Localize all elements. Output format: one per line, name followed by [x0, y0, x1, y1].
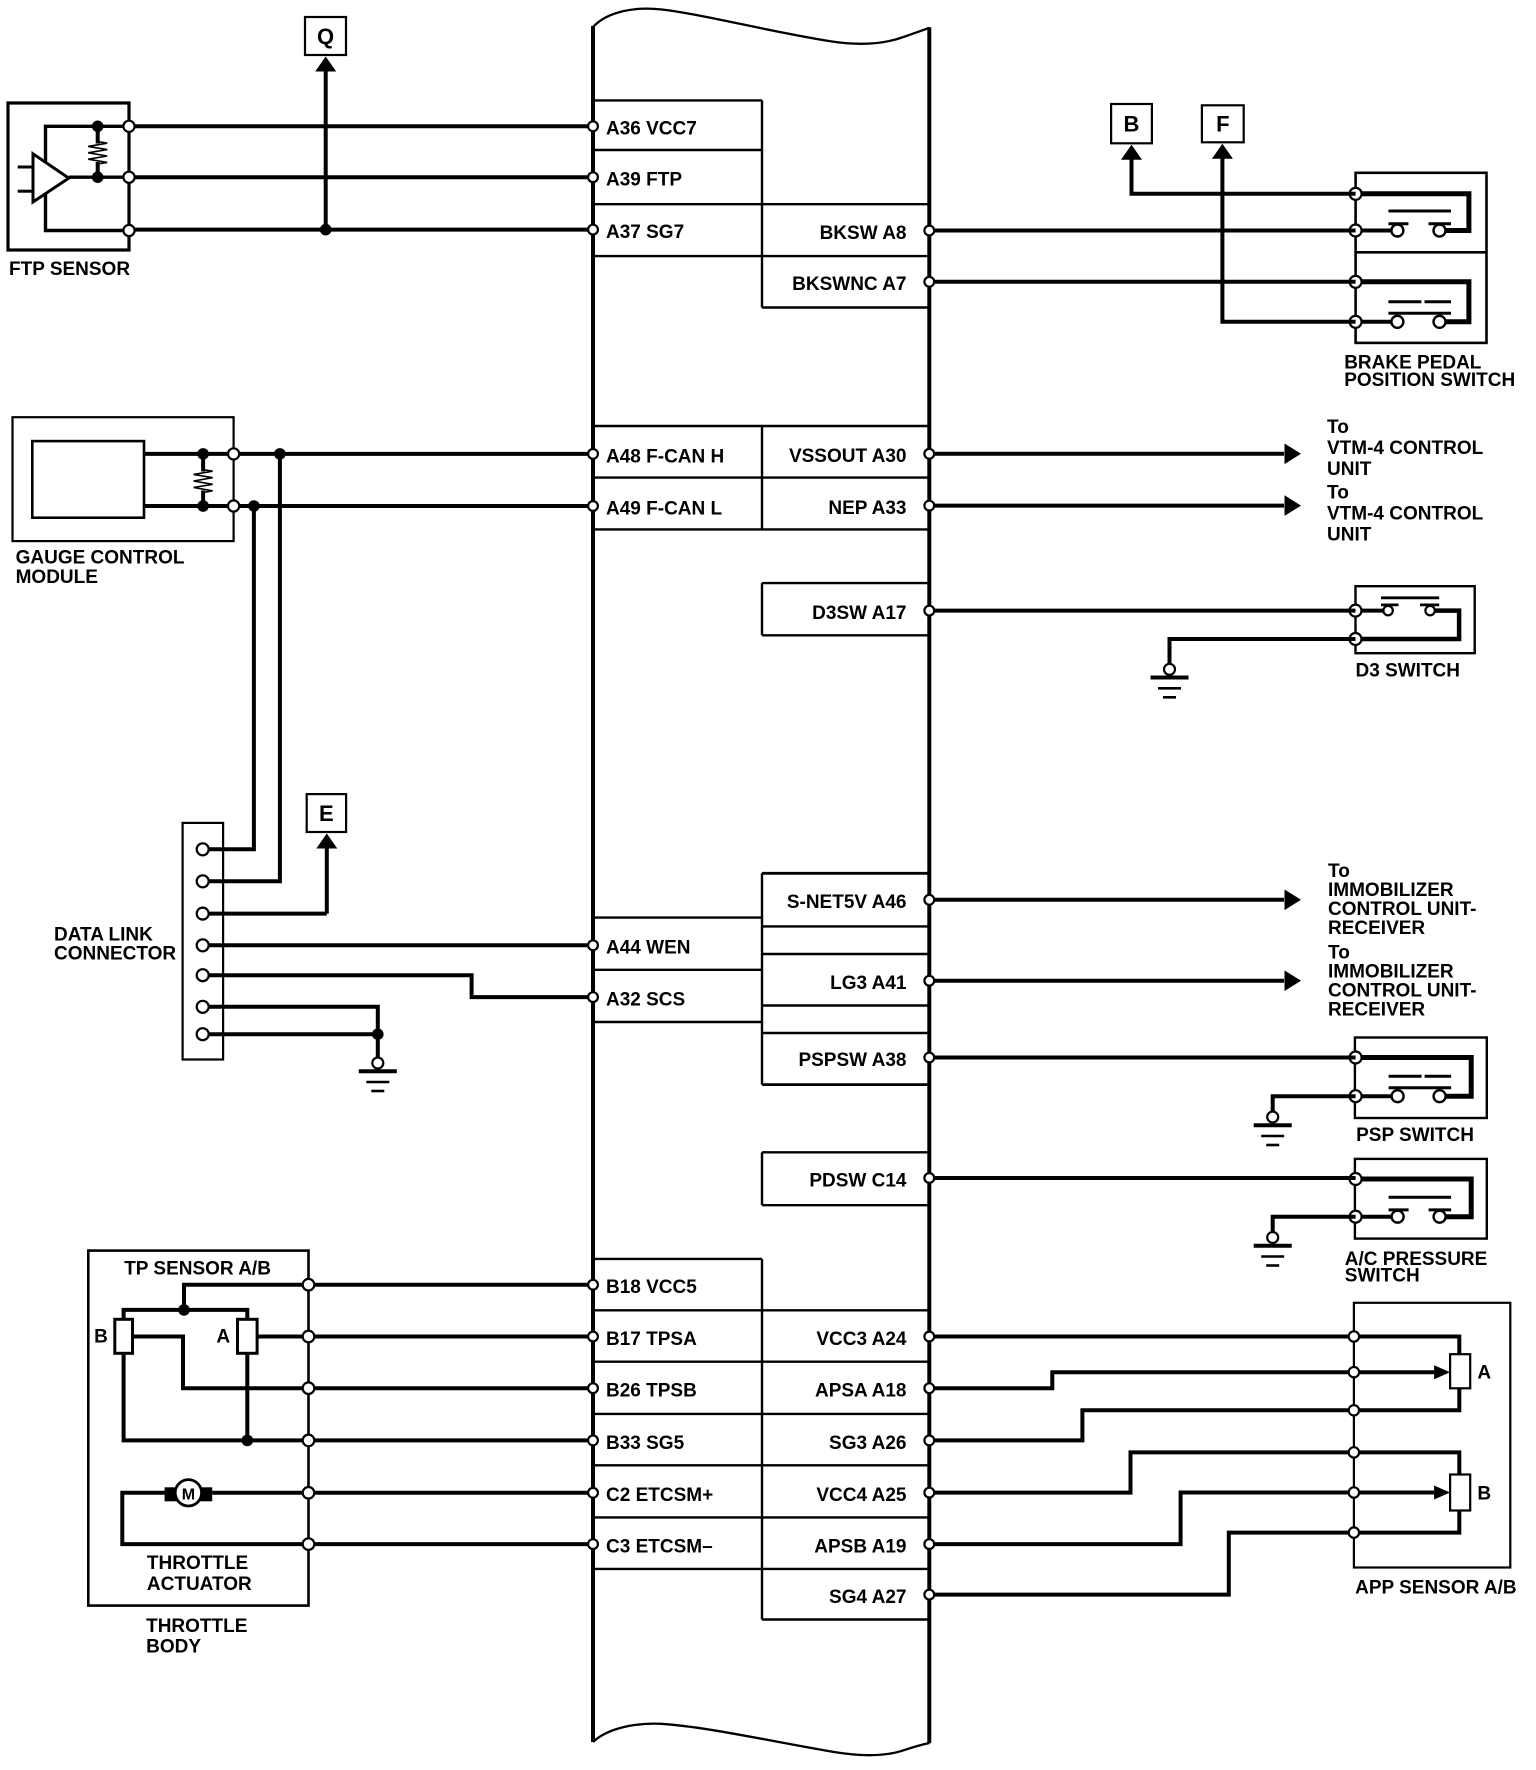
- wire PDSW C14 to A/C pressure switch: [929, 1176, 1355, 1180]
- svg-text:BKSW A8: BKSW A8: [820, 223, 907, 244]
- TP SENSOR A/B label: [124, 1258, 271, 1279]
- junction dot DLC ground wires: [372, 1028, 384, 1040]
- wire DLC pin 7 to ground: [203, 1034, 378, 1057]
- To VTM-4 CONTROL UNIT label (VSSOUT): [1327, 417, 1484, 480]
- wire SG3 A26 to APP sensor: [929, 1410, 1354, 1440]
- svg-text:PDSW C14: PDSW C14: [809, 1170, 907, 1191]
- wire from A37 SG7 up to connector Q with arrowhead: [315, 57, 336, 230]
- data link connector box: [183, 823, 224, 1060]
- ECM pin box D3SW A17: [762, 583, 929, 635]
- wire A/C pressure switch to ground: [1273, 1217, 1356, 1232]
- wire S-NET5V A46 to immobilizer control unit-receiver with arrowhead: [929, 890, 1301, 911]
- svg-text:VTM-4 CONTROL: VTM-4 CONTROL: [1327, 504, 1484, 525]
- connector ref Q box: [305, 17, 346, 55]
- svg-text:A39 FTP: A39 FTP: [606, 170, 682, 191]
- connector ref F box: [1202, 105, 1244, 142]
- wire A37 SG7 to FTP sensor: [129, 228, 593, 232]
- junction dot TP sensor ground rail: [242, 1435, 254, 1447]
- wire LG3 A41 to immobilizer control unit-receiver with arrowhead: [929, 970, 1301, 991]
- svg-text:VCC3 A24: VCC3 A24: [816, 1329, 907, 1350]
- wire DLC pin 5 to A32 SCS: [203, 975, 593, 997]
- GAUGE CONTROL MODULE label: [16, 547, 185, 588]
- APP sensor terminal circles: [1349, 1331, 1359, 1538]
- BRAKE PEDAL POSITION SWITCH label: [1344, 353, 1515, 392]
- ECM connector band right edge: [927, 27, 931, 1743]
- potentiometer TP sensor B: [94, 1319, 132, 1353]
- wire brake switch to connector F with arrowhead: [1212, 144, 1356, 322]
- APP sensor A wiper arrow: [1354, 1365, 1450, 1379]
- svg-text:A44 WEN: A44 WEN: [606, 938, 690, 959]
- APP sensor box: [1354, 1303, 1510, 1568]
- svg-text:IMMOBILIZER: IMMOBILIZER: [1328, 962, 1454, 983]
- svg-text:IMMOBILIZER: IMMOBILIZER: [1328, 880, 1454, 901]
- svg-text:APSB A19: APSB A19: [814, 1537, 906, 1558]
- APP SENSOR A/B label: [1355, 1578, 1517, 1599]
- ECM pin box group: S-NET5V A46 / A44 WEN / LG3 A41 / A32 SCS / PSPSW A38: [593, 873, 929, 1084]
- svg-text:VSSOUT A30: VSSOUT A30: [789, 446, 907, 467]
- svg-text:A36 VCC7: A36 VCC7: [606, 119, 697, 140]
- svg-text:A37 SG7: A37 SG7: [606, 222, 684, 243]
- svg-text:TP SENSOR A/B: TP SENSOR A/B: [124, 1258, 271, 1279]
- svg-text:FTP SENSOR: FTP SENSOR: [9, 259, 130, 280]
- svg-text:B18 VCC5: B18 VCC5: [606, 1277, 697, 1298]
- wire A48 F-CAN H to gauge module: [234, 452, 593, 456]
- svg-text:BKSWNC A7: BKSWNC A7: [792, 274, 906, 295]
- svg-text:GAUGE CONTROL: GAUGE CONTROL: [16, 547, 185, 568]
- To IMMOBILIZER CONTROL UNIT-RECEIVER label (LG3): [1328, 943, 1476, 1021]
- wire D3SW A17 to D3 switch: [929, 609, 1355, 613]
- svg-text:CONTROL UNIT-: CONTROL UNIT-: [1328, 899, 1476, 920]
- svg-text:THROTTLE: THROTTLE: [147, 1553, 248, 1574]
- wire A36 VCC7 to FTP sensor: [129, 124, 593, 128]
- svg-text:RECEIVER: RECEIVER: [1328, 1000, 1425, 1021]
- svg-text:RECEIVER: RECEIVER: [1328, 918, 1425, 939]
- APP sensor B supply/ground wiring: [1354, 1452, 1459, 1532]
- svg-text:POSITION SWITCH: POSITION SWITCH: [1344, 370, 1515, 391]
- wire throttle motor to C3 ETCSM-: [122, 1493, 593, 1544]
- connector ref B box: [1111, 104, 1152, 143]
- riser wire F-CAN H to data link connector pin 2: [203, 454, 280, 881]
- wire APSA A18 to APP sensor: [929, 1372, 1354, 1388]
- wire VCC4 A25 to APP sensor: [929, 1452, 1354, 1492]
- svg-text:CONNECTOR: CONNECTOR: [54, 944, 176, 965]
- svg-text:CONTROL UNIT-: CONTROL UNIT-: [1328, 981, 1476, 1002]
- svg-text:APP SENSOR A/B: APP SENSOR A/B: [1355, 1578, 1517, 1599]
- brake pedal switch upper contact set (BKSW): [1356, 194, 1469, 237]
- svg-text:A49 F-CAN L: A49 F-CAN L: [606, 498, 723, 519]
- PSP SWITCH label: [1356, 1125, 1474, 1146]
- svg-text:SWITCH: SWITCH: [1345, 1265, 1420, 1286]
- svg-text:PSPSW A38: PSPSW A38: [798, 1050, 906, 1071]
- potentiometer TP sensor A: [216, 1319, 257, 1353]
- ground symbol for A/C pressure switch: [1254, 1232, 1292, 1266]
- D3 switch contacts: [1356, 598, 1460, 639]
- svg-text:UNIT: UNIT: [1327, 459, 1372, 480]
- brake pedal switch terminal circles: [1350, 188, 1362, 328]
- DATA LINK CONNECTOR label: [54, 925, 176, 965]
- svg-text:C2 ETCSM+: C2 ETCSM+: [606, 1485, 713, 1506]
- gauge control module box: [13, 417, 234, 541]
- D3 SWITCH label: [1356, 661, 1461, 682]
- D3 switch box: [1356, 586, 1475, 653]
- svg-text:D3 SWITCH: D3 SWITCH: [1356, 661, 1461, 682]
- ECM band torn top edge: [593, 9, 929, 44]
- svg-text:To: To: [1328, 861, 1350, 882]
- ECM pin box group: A36 VCC7 / A39 FTP / A37 SG7 / BKSW A8 / BKSWNC A7: [593, 100, 929, 307]
- svg-text:ACTUATOR: ACTUATOR: [147, 1574, 252, 1595]
- svg-text:B: B: [1477, 1483, 1491, 1504]
- brake pedal position switch box: [1356, 173, 1487, 343]
- wire APSB A19 to APP sensor: [929, 1493, 1354, 1545]
- wire A49 F-CAN L to gauge module: [234, 504, 593, 508]
- svg-text:LG3 A41: LG3 A41: [830, 973, 907, 994]
- svg-text:E: E: [319, 801, 334, 826]
- svg-text:A: A: [1477, 1362, 1491, 1383]
- wire DLC pin 6 to ground junction: [203, 1007, 378, 1034]
- ECM band torn bottom edge: [593, 1724, 929, 1756]
- throttle body box: [88, 1251, 308, 1606]
- ECM pin box group: B18 VCC5 / B17 TPSA / B26 TPSB / B33 SG5 / C2 ETCSM+ / C3 ETCSM- / VCC3 A24 / APSA A18 / SG3 A26 / VCC4 A25 / APSB A19 / SG4 A27: [593, 1259, 929, 1620]
- ECM left edge pin circles: [588, 121, 598, 1549]
- wire brake switch to connector B with arrowhead: [1121, 145, 1356, 194]
- svg-text:UNIT: UNIT: [1327, 525, 1372, 546]
- wire PSP switch to ground: [1273, 1096, 1356, 1111]
- APP sensor B wiper arrow: [1354, 1486, 1450, 1500]
- FTP sensor box: [8, 103, 129, 250]
- svg-text:F: F: [1216, 112, 1229, 137]
- svg-text:VTM-4 CONTROL: VTM-4 CONTROL: [1327, 438, 1484, 459]
- FTP sensor terminal circles: [123, 121, 134, 236]
- throttle actuator motor M1: [165, 1480, 213, 1506]
- svg-text:NEP A33: NEP A33: [828, 498, 906, 519]
- svg-text:THROTTLE: THROTTLE: [146, 1616, 247, 1637]
- svg-text:B33 SG5: B33 SG5: [606, 1433, 685, 1454]
- ECM pin box PDSW C14: [762, 1152, 929, 1205]
- resistor R2 (gauge module CAN termination): [194, 454, 213, 506]
- svg-text:To: To: [1327, 483, 1349, 504]
- svg-text:To: To: [1328, 943, 1350, 964]
- APP sensor A supply/ground wiring: [1354, 1337, 1459, 1411]
- wire TP sensor B wiper to B26 TPSB: [133, 1337, 594, 1389]
- wire SG4 A27 to APP sensor: [929, 1533, 1354, 1595]
- junction dot TP supply rail: [178, 1304, 190, 1316]
- svg-text:PSP SWITCH: PSP SWITCH: [1356, 1125, 1474, 1146]
- wire A39 FTP to FTP sensor: [129, 175, 593, 179]
- FTP SENSOR label: [9, 259, 130, 280]
- wire throttle motor to C2 ETCSM+: [212, 1491, 593, 1495]
- THROTTLE ACTUATOR label: [147, 1553, 252, 1595]
- svg-text:APSA A18: APSA A18: [815, 1381, 907, 1402]
- junction dot F-CAN H riser: [274, 448, 286, 460]
- ECM right edge pin circles: [924, 226, 934, 1600]
- svg-text:C3 ETCSM–: C3 ETCSM–: [606, 1537, 713, 1558]
- svg-text:B17 TPSA: B17 TPSA: [606, 1329, 697, 1350]
- D3 switch terminal circles: [1350, 605, 1362, 645]
- gauge module terminal circles: [228, 448, 239, 511]
- wire BKSW A8 to brake pedal switch: [929, 229, 1355, 233]
- wire DLC pin 4 to A44 WEN: [203, 943, 593, 947]
- ground symbol for PSP switch: [1254, 1112, 1292, 1146]
- junction dot F-CAN L riser: [248, 500, 260, 512]
- A/C pressure switch box: [1355, 1159, 1487, 1239]
- svg-text:B: B: [1124, 112, 1140, 137]
- svg-text:M: M: [182, 1486, 195, 1503]
- wire TP sensor A wiper to B17 TPSA: [257, 1335, 593, 1339]
- FTP sensor internal rails: [46, 126, 130, 230]
- ECM pin box group: A48 F-CAN H / A49 F-CAN L / VSSOUT A30 / NEP A33: [593, 426, 929, 529]
- potentiometer APP sensor B: [1450, 1475, 1491, 1511]
- svg-text:B26 TPSB: B26 TPSB: [606, 1381, 697, 1402]
- wire PSPSW A38 to PSP switch: [929, 1056, 1355, 1060]
- wire TP sensor grounds to B33 SG5: [124, 1353, 593, 1440]
- junction dots on gauge resistor: [197, 448, 209, 512]
- svg-text:MODULE: MODULE: [16, 567, 98, 588]
- svg-text:To: To: [1327, 417, 1349, 438]
- svg-text:SG4 A27: SG4 A27: [829, 1587, 906, 1608]
- op-amp U1 (FTP sensor amplifier): [18, 154, 69, 202]
- svg-text:SG3 A26: SG3 A26: [829, 1433, 906, 1454]
- wire VCC3 A24 to APP sensor: [929, 1335, 1354, 1339]
- data link connector pin circles: [197, 843, 209, 1040]
- ECM left pin labels: [606, 119, 724, 1558]
- svg-text:DATA LINK: DATA LINK: [54, 925, 153, 946]
- ground symbol below data link connector: [359, 1058, 397, 1092]
- svg-text:D3SW A17: D3SW A17: [812, 603, 906, 624]
- svg-text:Q: Q: [317, 24, 334, 49]
- A/C pressure switch contacts: [1356, 1179, 1472, 1223]
- A/C PRESSURE SWITCH label: [1345, 1249, 1488, 1286]
- PSP switch terminal circles: [1350, 1052, 1362, 1103]
- throttle body terminal circles: [303, 1279, 315, 1550]
- svg-text:A32 SCS: A32 SCS: [606, 990, 685, 1011]
- svg-text:S-NET5V A46: S-NET5V A46: [787, 892, 907, 913]
- svg-text:VCC4 A25: VCC4 A25: [816, 1485, 907, 1506]
- A/C pressure switch terminal circles: [1350, 1173, 1362, 1223]
- PSP switch contacts: [1356, 1058, 1472, 1103]
- gauge module internal wires to terminals: [144, 454, 234, 506]
- TP sensor top rail: [124, 1310, 248, 1319]
- wire B18 VCC5 to TP sensor supply rail: [184, 1285, 593, 1310]
- connector ref E box: [307, 794, 346, 832]
- brake pedal switch lower contact set (BKSWNC): [1356, 282, 1469, 328]
- gauge control module inner unit box: [32, 441, 144, 518]
- To IMMOBILIZER CONTROL UNIT-RECEIVER label (S-NET5V): [1328, 861, 1476, 939]
- wire D3 switch to ground: [1170, 639, 1356, 664]
- junction dot A37 wire / Q branch: [320, 224, 332, 236]
- To VTM-4 CONTROL UNIT label (NEP): [1327, 483, 1484, 546]
- ECM connector band left edge: [591, 26, 595, 1742]
- wire VSSOUT A30 to VTM-4 control unit with arrowhead: [929, 444, 1301, 465]
- PSP switch box: [1355, 1038, 1487, 1119]
- junction dots on FTP resistor: [92, 121, 104, 184]
- riser wire F-CAN L to data link connector pin 1: [203, 506, 254, 849]
- THROTTLE BODY label: [146, 1616, 247, 1658]
- ground symbol for D3 switch: [1151, 664, 1189, 698]
- wire BKSWNC A7 to brake pedal switch: [929, 280, 1355, 284]
- svg-text:BODY: BODY: [146, 1637, 201, 1658]
- resistor R1 (FTP sensor pull-up): [88, 126, 107, 177]
- svg-text:B: B: [94, 1327, 108, 1348]
- wire NEP A33 to VTM-4 control unit with arrowhead: [929, 495, 1301, 516]
- potentiometer APP sensor A: [1450, 1354, 1491, 1388]
- svg-text:A48 F-CAN H: A48 F-CAN H: [606, 446, 724, 467]
- svg-text:A: A: [216, 1327, 230, 1348]
- ECM right pin labels: [787, 223, 907, 1608]
- wire DLC pin 3 to connector E with arrowhead: [203, 834, 338, 914]
